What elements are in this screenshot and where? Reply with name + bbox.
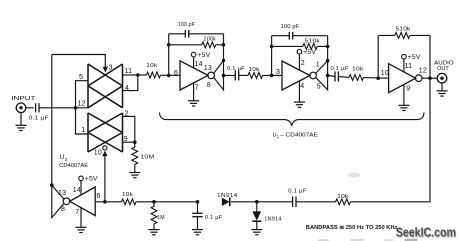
svg-text:200k: 200k	[204, 37, 217, 43]
svg-text:– CD4007AE: – CD4007AE	[280, 132, 318, 138]
svg-text:7: 7	[75, 209, 79, 216]
svg-text:6: 6	[174, 70, 178, 77]
junction dot fb2 right 510k	[326, 45, 330, 49]
svg-text:+5V: +5V	[408, 54, 422, 61]
label U1 CD4007AE	[273, 132, 319, 139]
wire drain fork 8 stage1	[214, 61, 224, 90]
wire pin 10 to U1 output	[104, 156, 106, 202]
connector J2 AUDIO OUT	[437, 73, 447, 83]
svg-text:100 pF: 100 pF	[281, 24, 300, 30]
svg-text:1: 1	[81, 127, 85, 134]
wire stage3 fb vertical right	[429, 35, 431, 78]
watermark SeekIC.com	[396, 226, 457, 241]
svg-text:10k: 10k	[146, 63, 157, 69]
svg-text:0.1 µF: 0.1 µF	[288, 188, 307, 194]
svg-text:12: 12	[419, 67, 427, 74]
wire pin 7 U1 to ground	[80, 208, 82, 227]
pin label 1 stage2	[316, 61, 320, 68]
wire input connector to C1	[26, 107, 34, 109]
wire U2a out to 10k	[138, 74, 147, 76]
wire stage1 fb left vertical	[168, 34, 170, 76]
junction dot output node	[428, 76, 432, 80]
wire pin 2 stage2	[298, 54, 300, 70]
wire drain fork 1 stage2	[316, 61, 328, 74]
label 1M	[157, 215, 165, 221]
svg-text:8: 8	[207, 82, 211, 89]
wire 200k left lead	[169, 44, 202, 46]
label 0.1uF series bottom	[288, 188, 307, 194]
ground 1M	[149, 230, 160, 235]
label 100pF stage2	[281, 24, 300, 30]
junction dot stage1 input	[167, 74, 171, 78]
junction dot U1 out	[103, 200, 107, 204]
svg-text:+5V: +5V	[303, 49, 317, 56]
pin label 3 stage2	[276, 69, 280, 76]
label 100pF stage1	[178, 22, 195, 28]
pin label 14	[73, 187, 81, 194]
capacitor 100pF stage1	[185, 30, 188, 38]
junction dot pins 2-9	[133, 140, 137, 144]
pin label 6 stage1	[174, 70, 178, 77]
wire stage3 fb vertical left	[377, 35, 379, 78]
ground stage3	[398, 105, 409, 110]
svg-text:2: 2	[125, 111, 129, 118]
wire 510k left lead	[272, 45, 303, 47]
transistor pair U2a (pins 3,5,12,11,4)	[88, 64, 123, 108]
pin 10 arrow into U2b	[102, 151, 107, 157]
resistor 1M	[151, 206, 157, 224]
svg-text:14: 14	[73, 187, 81, 194]
label 10k stage1	[146, 63, 157, 69]
label 10k bottom right	[337, 194, 348, 200]
svg-text:13: 13	[58, 190, 66, 197]
svg-text:9: 9	[406, 86, 410, 93]
svg-text:0.1 µF: 0.1 µF	[227, 66, 245, 72]
resistor 510k stage2	[303, 44, 318, 50]
pin label 4 stage2	[300, 83, 304, 90]
wire stage2 out to cap	[328, 75, 335, 78]
label 0.1uF shunt	[205, 215, 223, 221]
wire shunt diode lead	[256, 202, 258, 212]
pin label 9 stage3	[406, 86, 410, 93]
label D1 1N914	[217, 193, 238, 199]
label 10k bottom	[122, 192, 133, 198]
junction dot stage2 input	[270, 74, 274, 78]
wire 1M to ground	[153, 224, 155, 229]
wire drain fork 5 stage2	[316, 61, 328, 90]
pin label 2 stage2	[301, 60, 305, 67]
wire stage2 fb right vertical	[327, 36, 329, 61]
junction dot pins 11-4	[136, 73, 140, 77]
capacitor 0.1uF shunt	[192, 213, 202, 216]
svg-text:3: 3	[276, 69, 280, 76]
svg-text:9: 9	[124, 136, 128, 143]
inverter U1 (CD4007 pair)	[63, 187, 95, 216]
+5V terminal pin 11 stage3	[402, 54, 422, 61]
wire stage1 out to cap	[224, 74, 236, 76]
ground stage1	[188, 101, 199, 106]
diode D2 1N914 shunt	[252, 211, 261, 221]
svg-text:10k: 10k	[337, 194, 348, 200]
ground stage2	[294, 102, 305, 107]
label 510k stage2	[305, 38, 320, 44]
junction dot fb2 left 510k	[270, 45, 274, 49]
svg-text:4: 4	[125, 85, 129, 92]
svg-text:11: 11	[405, 63, 413, 70]
svg-text:0.1 µF: 0.1 µF	[29, 116, 50, 122]
pin label 7	[75, 209, 79, 216]
svg-text:100 pF: 100 pF	[178, 22, 195, 28]
wire shunt diode to ground	[256, 221, 258, 229]
wire stage2 fb left vertical	[271, 36, 273, 76]
wire 200k right lead	[216, 44, 224, 46]
pin label 10	[94, 150, 102, 157]
wire 510k3 top right lead	[410, 34, 430, 36]
wire cap to 10k right	[296, 201, 336, 203]
junction dot gates node	[74, 106, 78, 110]
svg-text:1: 1	[316, 61, 320, 68]
wire cap top lead	[197, 202, 199, 214]
pin label 4	[125, 85, 129, 92]
pin label 7 stage1	[195, 84, 199, 91]
wire pin 14 U1	[80, 181, 82, 195]
label 510k stage3	[396, 27, 411, 33]
wire 10k to stage3	[364, 77, 389, 80]
ground U1 pin 7	[76, 227, 87, 232]
wire cap to 10k stage3	[338, 76, 349, 79]
resistor 10k stage1 input	[147, 72, 161, 78]
wire pin 1 tie	[76, 108, 89, 134]
wire diode node	[231, 201, 292, 203]
svg-text:10k: 10k	[122, 192, 133, 198]
svg-text:1M: 1M	[157, 215, 165, 221]
junction dot stage2 output	[326, 74, 330, 78]
diode D1 1N914 series	[222, 197, 230, 206]
ground audio connector	[437, 91, 448, 96]
pin label 13 stage1	[204, 65, 212, 72]
wire 10k to 1M node	[136, 201, 198, 203]
svg-text:7: 7	[195, 84, 199, 91]
junction dot shunt cap node	[196, 200, 200, 204]
caption BANDPASS	[306, 225, 398, 231]
junction dot fork top stage2	[326, 59, 330, 63]
wire 10k to stage1 input	[161, 74, 181, 76]
label 10k stage2	[249, 67, 260, 73]
wire U1 drain fork lower pin 8	[52, 185, 64, 217]
junction dot shunt diode node	[255, 200, 259, 204]
label 0.1uF stage2-3	[331, 66, 349, 72]
pin label 1	[81, 127, 85, 134]
capacitor C1 0.1uF input coupling	[36, 103, 39, 112]
svg-text:510k: 510k	[305, 38, 320, 44]
capacitor 0.1uF series bottom	[293, 197, 296, 207]
svg-text:0.1 µF: 0.1 µF	[331, 66, 349, 72]
label C1 0.1uF	[29, 116, 50, 122]
junction dot stage3 input	[376, 76, 380, 80]
pin label 2	[125, 111, 129, 118]
wire 100pF2 top right	[293, 35, 328, 37]
wire pin 11 to output node	[123, 74, 138, 76]
inverter stage2	[282, 61, 316, 90]
svg-text:1N914: 1N914	[217, 193, 238, 199]
wire audio connector ground lead	[441, 83, 443, 91]
svg-text:+5V: +5V	[85, 176, 99, 183]
svg-text:+5V: +5V	[197, 52, 211, 59]
svg-text:6: 6	[97, 193, 101, 200]
svg-text:2: 2	[301, 60, 305, 67]
svg-text:14: 14	[195, 61, 203, 68]
pin 3 arrow into U2a	[103, 67, 108, 73]
label 10k stage3	[352, 67, 364, 73]
svg-text:4: 4	[300, 83, 304, 90]
scan artifact smudge	[348, 173, 360, 178]
wire input connector ground lead	[20, 113, 22, 125]
brace U1 group	[160, 113, 425, 126]
capacitor 100pF stage2	[289, 32, 292, 40]
pin label 9	[124, 136, 128, 143]
resistor 10M	[132, 147, 138, 165]
resistor 10k stage3 input	[349, 75, 364, 81]
resistor 200k	[202, 42, 216, 48]
pin label 5 stage2	[317, 84, 321, 91]
wire pin 4 join	[123, 75, 138, 91]
resistor 10k stage2 input	[248, 73, 263, 79]
wire pin3 feedback from U1 output	[52, 55, 106, 68]
svg-text:8: 8	[61, 206, 65, 213]
wire 10M to ground	[134, 165, 136, 173]
wire U1 output feedback vertical	[51, 55, 53, 186]
label 0.1uF stage1-2	[227, 66, 245, 72]
pin label 6	[97, 193, 101, 200]
wire 100pF2 top left	[272, 35, 290, 37]
transistor pair U2b (pins 10,1,2,9)	[88, 113, 123, 152]
svg-text:11: 11	[125, 68, 133, 75]
node AUDIO OUT label	[434, 60, 454, 72]
svg-text:SeekIC.com: SeekIC.com	[396, 226, 456, 240]
wire pin 9	[123, 141, 135, 143]
connector J1 INPUT	[16, 103, 26, 113]
ground shunt cap	[192, 230, 203, 235]
wire 510k3 top left lead	[378, 34, 395, 36]
pin 10 bubble	[103, 146, 107, 150]
resistor 10k bottom	[122, 199, 137, 205]
wire shunt cap to ground	[197, 217, 199, 230]
svg-text:2: 2	[65, 157, 68, 162]
inverter stage1	[180, 61, 214, 90]
svg-text:5: 5	[317, 84, 321, 91]
capacitor 0.1uF stage1-2	[235, 70, 238, 80]
svg-text:10: 10	[381, 70, 389, 77]
wire U1 drain fork upper pin 13	[52, 185, 64, 199]
junction dot 1M node	[152, 200, 156, 204]
resistor 10k bottom right	[336, 199, 351, 205]
wire pin 4 stage2 ground lead	[298, 81, 300, 101]
capacitor 0.1uF stage2-3	[335, 71, 338, 81]
label U2	[60, 154, 68, 162]
pin label 5	[79, 74, 83, 81]
wire 510k right lead	[317, 45, 327, 47]
wire 100pF top right	[189, 33, 224, 35]
pin label 11	[125, 68, 133, 75]
wire pin 14 stage1	[193, 57, 195, 68]
label D2 1N914	[264, 216, 282, 222]
pin label 10 stage3	[381, 70, 389, 77]
wire stage1 fb right vertical	[223, 34, 225, 61]
svg-text:10M: 10M	[140, 154, 154, 160]
svg-text:10: 10	[94, 150, 102, 157]
svg-text:5: 5	[79, 74, 83, 81]
wire 1M top lead	[153, 202, 155, 207]
junction dot fb right 200k	[222, 43, 226, 47]
label U2 CD4007AE	[59, 163, 88, 169]
wire C1 to gates node	[39, 107, 88, 109]
+5V terminal pin 14 U1	[79, 176, 99, 183]
pin label 12 stage3	[419, 67, 427, 74]
wire 10k to stage2	[263, 74, 283, 76]
junction dot U1 fork	[50, 183, 54, 187]
wire pin 7 stage1 ground lead	[193, 83, 195, 101]
wire pin 2 join	[123, 116, 135, 142]
inverter stage3	[389, 64, 422, 93]
pin label 3	[109, 65, 113, 72]
svg-text:10k: 10k	[352, 67, 364, 73]
svg-text:INPUT: INPUT	[11, 96, 36, 102]
pin label 8	[61, 206, 65, 213]
wire pin 11 stage3	[403, 59, 405, 72]
pin label 11 stage3	[405, 63, 413, 70]
svg-text:12: 12	[78, 101, 86, 108]
node INPUT label	[11, 96, 36, 102]
wire cap to 10k stage2	[239, 74, 248, 76]
svg-text:CD4007AE: CD4007AE	[59, 163, 88, 169]
junction dot stage1 output	[222, 74, 226, 78]
pin label 14 stage1	[195, 61, 203, 68]
wire 100pF top left	[169, 33, 186, 35]
+5V terminal pin 14 stage1	[191, 52, 211, 59]
ground input connector	[16, 125, 27, 130]
svg-text:1N914: 1N914	[264, 216, 282, 222]
junction dot fb left 200k	[167, 43, 171, 47]
svg-text:0.1 µF: 0.1 µF	[205, 215, 223, 221]
junction dot fork top stage1	[222, 59, 226, 63]
ground 10M	[129, 173, 140, 178]
label 10M	[140, 154, 154, 160]
svg-text:510k: 510k	[396, 27, 411, 33]
wire drain fork 13 stage1	[214, 61, 224, 74]
svg-text:10k: 10k	[249, 67, 260, 73]
svg-text:BANDPASS ≅ 250 Hz TO 250 KHz: BANDPASS ≅ 250 Hz TO 250 KHz	[306, 225, 398, 231]
wire to resistor 10M	[134, 142, 136, 147]
wire pin 5 tie	[76, 81, 89, 108]
wire stage3 output	[422, 77, 438, 79]
scan artifact below watermark	[318, 239, 418, 241]
wire U1 pin 6 output	[95, 201, 121, 203]
resistor 510k stage3	[395, 33, 410, 39]
pin label 12	[78, 101, 86, 108]
ground shunt diode	[251, 230, 262, 235]
svg-text:3: 3	[109, 65, 113, 72]
+5V terminal pin 2 stage2	[297, 49, 317, 56]
svg-text:OUT: OUT	[437, 66, 449, 72]
pin label 13	[58, 190, 66, 197]
wire pin 9 stage3 ground lead	[403, 85, 405, 106]
wire bottom to output node riser	[351, 78, 431, 202]
svg-text:13: 13	[204, 65, 212, 72]
label 200k	[204, 37, 217, 43]
pin label 8 stage1	[207, 82, 211, 89]
